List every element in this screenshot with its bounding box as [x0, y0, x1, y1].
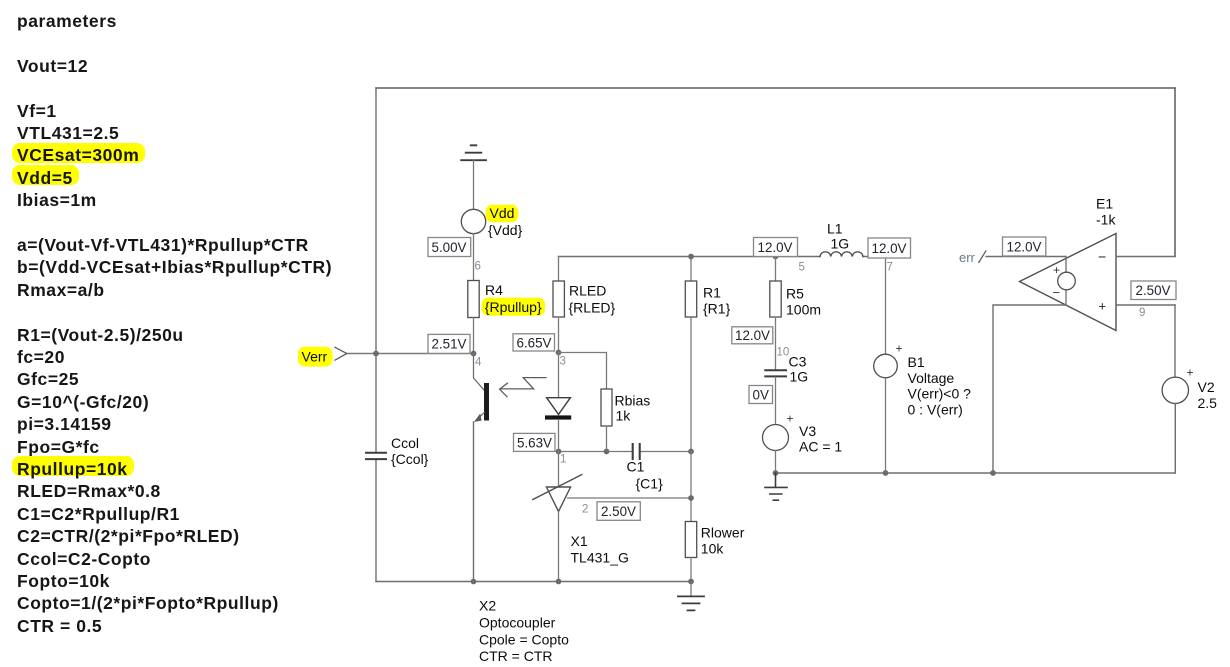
svg-text:R5: R5	[786, 285, 804, 301]
TL431 X1 cathode wire	[558, 452, 560, 488]
node junction C1/R1	[688, 449, 694, 455]
ground (top, flipped)	[461, 145, 486, 160]
svg-text:err: err	[959, 250, 976, 265]
wire B1 to ground rail	[885, 378, 887, 473]
svg-text:{Vdd}: {Vdd}	[488, 222, 523, 238]
svg-text:1: 1	[560, 454, 566, 466]
svg-text:E1: E1	[1096, 196, 1113, 212]
svg-text:AC = 1: AC = 1	[799, 439, 842, 455]
capacitor C3	[765, 370, 786, 376]
wire R5 top	[775, 257, 777, 282]
node junction R1/main rail	[688, 254, 694, 260]
probe box 6.65V	[513, 334, 555, 351]
svg-text:5.63V: 5.63V	[517, 436, 552, 451]
resistor Rlower	[685, 522, 696, 558]
probe box 12.0V (err input)	[1003, 237, 1046, 256]
transistor Q (optocoupler output) collector	[474, 354, 485, 391]
svg-text:4: 4	[475, 357, 482, 369]
probe box 2.51V	[428, 334, 470, 353]
svg-text:R1: R1	[703, 284, 721, 300]
optocoupler light arrow	[500, 378, 546, 389]
node junction 4	[471, 351, 477, 357]
wire emitter to ground rail	[473, 422, 475, 582]
capacitor Ccol	[366, 453, 386, 459]
voltage source Vdd	[461, 209, 485, 233]
wire V3 to ground rail	[775, 451, 777, 474]
wire node 3 to Rbias	[559, 353, 607, 390]
wire ground to Vdd source	[473, 160, 475, 209]
svg-text:Vdd: Vdd	[490, 205, 515, 221]
svg-text:C3: C3	[789, 354, 807, 370]
svg-text:12.0V: 12.0V	[1007, 239, 1042, 254]
wire E1 plus input (err net)	[986, 256, 1066, 258]
svg-text:{RLED}: {RLED}	[569, 299, 616, 315]
wire R4 to node 4	[473, 318, 475, 354]
wire E1 plus output (node 9)	[1116, 304, 1175, 306]
node junction ref pin	[688, 495, 694, 501]
node junction V3/rail	[773, 470, 779, 476]
wire node 9 to V2	[1174, 305, 1176, 377]
inductor L1	[820, 252, 863, 257]
highlight + net label Verr	[298, 347, 333, 367]
E1 internal source circle	[1058, 272, 1076, 290]
resistor R1	[685, 281, 696, 317]
E1 internal bar	[1065, 257, 1067, 306]
wire node 1 horizontal	[559, 451, 692, 453]
wire ground rail right	[776, 472, 1176, 474]
wire Verr net	[347, 353, 474, 355]
net flag Verr chevron	[335, 347, 347, 360]
svg-text:R4: R4	[485, 282, 503, 298]
svg-text:12.0V: 12.0V	[758, 240, 793, 255]
svg-text:12.0V: 12.0V	[735, 328, 770, 343]
svg-text:Optocoupler: Optocoupler	[479, 615, 556, 631]
probe box 2.50V (TL431 ref)	[597, 502, 640, 521]
svg-text:7: 7	[887, 262, 893, 274]
node junction 5	[773, 254, 779, 260]
svg-text:-1k: -1k	[1096, 212, 1116, 228]
svg-text:2.51V: 2.51V	[432, 337, 467, 352]
capacitor C1	[633, 444, 640, 459]
node junction 1	[556, 449, 562, 455]
svg-text:Verr: Verr	[302, 348, 328, 364]
svg-text:Voltage: Voltage	[908, 370, 955, 386]
svg-text:X1: X1	[571, 533, 588, 549]
wire top feedback rail	[376, 87, 1175, 89]
svg-text:B1: B1	[908, 354, 925, 370]
wire R1 bottom to node 1 rail	[690, 317, 692, 452]
node junction Verr/Ccol	[373, 351, 379, 357]
svg-text:CTR = CTR: CTR = CTR	[479, 648, 553, 664]
net flag err slash	[979, 251, 986, 263]
probe box 12.0V (node 10)	[732, 327, 773, 344]
probe box 5.63V	[514, 433, 556, 451]
ground (bottom centre)	[678, 596, 704, 610]
svg-text:2.50V: 2.50V	[1136, 283, 1171, 298]
parameters text block	[17, 10, 117, 32]
svg-text:5: 5	[799, 262, 805, 274]
node junction anode/ground rail	[556, 579, 562, 585]
wire main 12V rail	[559, 256, 891, 258]
svg-text:+: +	[1187, 366, 1194, 380]
TL431 X1 symbol	[546, 487, 570, 512]
resistor Rbias	[601, 389, 612, 426]
node junction bottom rail/ground	[688, 579, 694, 585]
svg-text:6.65V: 6.65V	[517, 336, 552, 351]
svg-text:0 : V(err): 0 : V(err)	[908, 401, 963, 417]
wire down to Rlower	[690, 452, 692, 522]
highlight + value label {Rpullup}	[482, 298, 545, 316]
svg-text:{Rpullup}: {Rpullup}	[485, 299, 542, 315]
ground (right)	[765, 473, 787, 500]
probe box 5.00V	[428, 238, 471, 257]
svg-text:1G: 1G	[831, 236, 850, 252]
wire R1 top	[690, 257, 692, 282]
svg-text:{C1}: {C1}	[636, 475, 664, 491]
svg-text:3: 3	[560, 356, 566, 368]
svg-text:10: 10	[777, 347, 790, 359]
node junction 3	[556, 350, 562, 356]
svg-text:5.00V: 5.00V	[432, 240, 467, 255]
svg-text:1k: 1k	[616, 408, 632, 424]
probe box 12.0V (node 5)	[754, 238, 798, 257]
op-amp style E-source E1	[1020, 234, 1117, 331]
svg-text:Ccol: Ccol	[391, 435, 419, 451]
voltage source V3	[763, 425, 789, 451]
wire Rbias to node 1	[606, 426, 608, 452]
svg-text:1G: 1G	[790, 369, 809, 385]
TL431 reference pin wire (node 2)	[568, 497, 692, 499]
svg-text:−: −	[1053, 285, 1061, 300]
svg-text:L1: L1	[827, 221, 843, 237]
probe box 0V	[749, 386, 773, 404]
svg-text:0V: 0V	[753, 388, 769, 403]
wire C3 to V3	[775, 377, 777, 424]
wire RLED top	[558, 257, 560, 282]
resistor RLED	[553, 281, 564, 317]
svg-text:+: +	[787, 412, 794, 426]
probe box 2.50V (node 9)	[1131, 281, 1176, 300]
highlight + label Vdd	[486, 205, 519, 223]
wire bottom ground rail left	[376, 581, 691, 583]
svg-text:Cpole = Copto: Cpole = Copto	[479, 632, 569, 648]
voltage source V2	[1162, 377, 1188, 403]
node junction E1 minus/rail	[990, 470, 996, 476]
resistor R4	[468, 281, 479, 318]
svg-text:10k: 10k	[701, 541, 725, 557]
svg-text:2.50V: 2.50V	[601, 504, 636, 519]
resistor R5	[770, 281, 781, 317]
wire R5 to C3 (node 10)	[775, 317, 777, 370]
svg-text:100m: 100m	[786, 302, 821, 318]
svg-text:−: −	[1098, 249, 1106, 265]
wire TL431 anode to ground rail	[558, 512, 560, 582]
svg-text:9: 9	[1139, 307, 1145, 319]
source B1	[874, 354, 898, 378]
svg-text:V2: V2	[1198, 379, 1215, 395]
svg-text:+: +	[1053, 263, 1060, 277]
probe box 12.0V (node 7)	[868, 238, 911, 258]
wire node 7 to B1	[885, 258, 887, 355]
svg-text:+: +	[896, 342, 903, 356]
node junction Rbias/node1	[604, 449, 610, 455]
wire RLED to node 3	[558, 317, 560, 353]
svg-text:V3: V3	[799, 423, 816, 439]
svg-text:RLED: RLED	[569, 282, 606, 298]
transistor base bar	[484, 383, 489, 421]
wire V2 to ground rail	[1174, 404, 1176, 474]
wire left vertical (Vout sense / Ccol branch)	[375, 88, 377, 582]
svg-text:{R1}: {R1}	[703, 301, 731, 317]
node junction B1/rail	[883, 470, 889, 476]
wire LED cathode to node 1	[558, 420, 560, 452]
svg-text:X2: X2	[479, 598, 496, 614]
wire E1 minus input	[993, 305, 1066, 473]
node junction emitter/ground rail	[471, 579, 477, 585]
svg-text:Rbias: Rbias	[615, 393, 651, 409]
svg-text:V(err)<0 ?: V(err)<0 ?	[908, 386, 972, 402]
svg-text:6: 6	[475, 261, 481, 273]
svg-text:12.0V: 12.0V	[872, 241, 907, 256]
svg-text:C1: C1	[627, 458, 645, 474]
wire Vdd to R4 (node 6)	[473, 234, 475, 281]
svg-text:{Ccol}: {Ccol}	[391, 451, 429, 467]
svg-text:+: +	[1099, 299, 1107, 314]
svg-text:Rlower: Rlower	[701, 525, 745, 541]
wire Rlower to ground	[690, 558, 692, 597]
transistor emitter with arrow	[476, 413, 484, 421]
wire E1 minus output	[1116, 256, 1175, 258]
svg-text:2.5: 2.5	[1198, 395, 1218, 411]
svg-text:TL431_G: TL431_G	[571, 550, 629, 566]
svg-text:2: 2	[582, 504, 588, 516]
wire right vertical to E1 minus output	[1174, 88, 1176, 257]
diode LED (optocoupler input)	[558, 353, 560, 398]
